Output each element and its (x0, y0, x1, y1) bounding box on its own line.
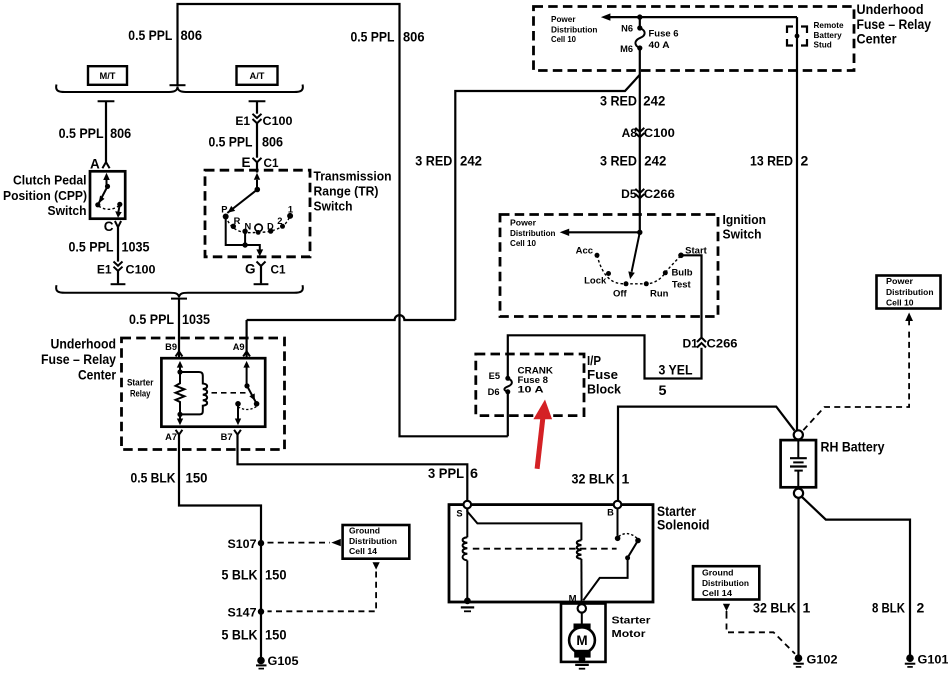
label 0.5 PPL 806 (left top) (128, 27, 202, 43)
svg-text:A/T: A/T (250, 71, 265, 81)
TR switch internals (221, 173, 293, 257)
relay resistor (176, 372, 185, 414)
svg-text:E1: E1 (235, 114, 250, 128)
wire 13 RED 2 battery feed (796, 17, 798, 430)
svg-text:Run: Run (650, 289, 669, 300)
wire 0.5 PPL 1035 down to B9 (178, 299, 180, 359)
svg-text:A: A (90, 156, 100, 171)
solenoid hold-in winding (466, 508, 468, 537)
svg-text:5: 5 (659, 382, 667, 398)
ignition switch rotary contacts (576, 245, 708, 299)
svg-text:150: 150 (265, 567, 287, 583)
svg-text:1035: 1035 (182, 311, 210, 327)
label Underhood Fuse-Relay Center (top right) (857, 2, 932, 47)
svg-text:B: B (607, 508, 614, 518)
svg-text:C1: C1 (271, 263, 286, 277)
label 0.5 PPL 806 (M/T branch) (59, 125, 132, 141)
svg-text:Cell 10: Cell 10 (886, 299, 914, 308)
reference Power Distribution Cell 10 (in UFRC) (551, 15, 598, 44)
label 13 RED 2 (750, 153, 809, 169)
splice S147 (228, 606, 265, 620)
label 0.5 PPL 806 (right top) (351, 29, 425, 45)
svg-text:Clutch Pedal: Clutch Pedal (13, 174, 87, 188)
relay coil (180, 372, 207, 414)
brace bottom (merge to 0.5 PPL 1035) (56, 285, 303, 298)
splice S107 (228, 537, 265, 551)
brace top (M/T + A/T split) (56, 85, 303, 93)
battery cell plates (790, 440, 807, 489)
svg-text:242: 242 (460, 153, 482, 169)
svg-text:P: P (221, 205, 227, 215)
dashed link ground distribution to S147 (268, 562, 380, 611)
ignition switch wiper arm (628, 232, 640, 279)
svg-text:0.5 PPL: 0.5 PPL (351, 29, 395, 45)
svg-text:3 YEL: 3 YEL (659, 362, 693, 378)
arrow to Power Distribution (ignition) (560, 229, 643, 236)
svg-text:Power: Power (886, 277, 914, 286)
svg-text:1: 1 (803, 600, 811, 616)
svg-text:6: 6 (470, 465, 478, 481)
starter motor ground (575, 656, 589, 669)
svg-text:1: 1 (288, 205, 293, 215)
svg-text:M: M (576, 633, 587, 648)
svg-text:Power: Power (551, 15, 576, 24)
relay coil input arrow (B9) (177, 361, 183, 375)
svg-text:Fuse 8: Fuse 8 (518, 375, 549, 385)
box M/T (88, 66, 127, 85)
starter relay box (161, 358, 265, 427)
wire 3 RED 242 main vertical (639, 48, 641, 232)
svg-text:Stud: Stud (814, 41, 832, 50)
svg-text:Switch: Switch (314, 199, 353, 213)
wire G to brace (254, 266, 269, 284)
svg-text:150: 150 (186, 470, 208, 486)
svg-text:S: S (456, 509, 462, 519)
svg-text:N6: N6 (621, 24, 633, 34)
solenoid coil 2 (577, 540, 582, 559)
svg-text:Cell 14: Cell 14 (702, 589, 732, 598)
svg-text:A9: A9 (233, 342, 245, 352)
I/P fuse block dashed box (476, 354, 584, 416)
wire 32 BLK 1 from solenoid B to battery (618, 407, 795, 501)
terminal A9 (233, 342, 250, 356)
svg-text:C100: C100 (644, 126, 675, 140)
solenoid linkage dashed (473, 548, 617, 550)
svg-text:CRANK: CRANK (518, 366, 554, 376)
svg-text:Transmission: Transmission (314, 169, 392, 183)
svg-text:Underhood: Underhood (857, 2, 924, 17)
svg-text:S107: S107 (228, 537, 257, 551)
connector D1 C266 (682, 337, 737, 351)
svg-text:Distribution: Distribution (886, 288, 934, 297)
svg-text:B9: B9 (165, 342, 177, 352)
svg-text:D6: D6 (488, 387, 500, 397)
label Starter Solenoid (657, 504, 710, 533)
svg-text:Battery: Battery (814, 31, 843, 40)
svg-text:Position (CPP): Position (CPP) (3, 189, 87, 203)
svg-text:B7: B7 (221, 432, 233, 442)
wire E into TR box (256, 163, 258, 173)
ground G102 (793, 653, 838, 667)
svg-text:Distribution: Distribution (551, 25, 598, 34)
wire Start contact to D1 (681, 255, 702, 337)
wire 3 YEL 5 to I/P fuse block (508, 335, 702, 378)
solenoid pull-in winding branch (467, 508, 581, 540)
svg-text:Switch: Switch (723, 228, 762, 242)
connector E1 C100 (A/T) (235, 114, 293, 128)
svg-text:Fuse – Relay: Fuse – Relay (857, 17, 932, 32)
wire A/T (256, 123, 258, 157)
connector G C1 (245, 262, 286, 277)
clutch pedal position switch CPP box (90, 171, 125, 218)
svg-text:Cell 10: Cell 10 (510, 239, 536, 248)
svg-text:Acc: Acc (576, 245, 593, 256)
svg-text:3 RED: 3 RED (600, 153, 637, 169)
svg-text:32 BLK: 32 BLK (753, 600, 796, 616)
svg-text:E1: E1 (97, 263, 112, 277)
svg-text:Distribution: Distribution (510, 229, 556, 238)
svg-text:Ground: Ground (702, 569, 734, 578)
svg-text:Ground: Ground (349, 527, 380, 536)
wire A9 drop (246, 320, 248, 358)
svg-text:M/T: M/T (99, 71, 115, 81)
wire feed with arrow to Power Distribution (601, 13, 797, 20)
svg-text:G105: G105 (268, 654, 299, 668)
label 0.5 PPL 1035 (to relay) (129, 311, 210, 327)
wire 3 RED 242 branch to relay A9 feed (455, 75, 640, 320)
svg-text:3 RED: 3 RED (600, 93, 637, 109)
svg-text:Solenoid: Solenoid (657, 518, 710, 533)
svg-text:242: 242 (644, 153, 666, 169)
fuse F8 (CRANK Fuse 8 10 A) (488, 366, 554, 398)
label 3 RED 242 (upper) (600, 93, 666, 109)
solenoid movable contact to M (583, 541, 638, 601)
svg-text:Ignition: Ignition (723, 213, 767, 227)
svg-text:N: N (244, 221, 251, 231)
svg-text:Cell 14: Cell 14 (349, 547, 377, 556)
svg-text:Starter: Starter (612, 615, 651, 627)
svg-text:3 RED: 3 RED (415, 153, 452, 169)
label Transmission Range (TR) Switch (314, 169, 392, 213)
svg-text:E5: E5 (489, 371, 500, 381)
ground G105 (256, 654, 299, 669)
svg-text:D: D (267, 221, 274, 231)
svg-text:D5: D5 (621, 187, 637, 201)
svg-text:D1: D1 (682, 337, 698, 351)
svg-text:Distribution: Distribution (349, 537, 397, 546)
terminal M (569, 594, 586, 613)
connector E C1 (241, 155, 278, 170)
reference Ground Distribution Cell 14 (G102) (693, 566, 759, 599)
svg-text:A8: A8 (622, 126, 638, 140)
label 0.5 BLK 150 (131, 470, 208, 486)
label 5 BLK 150 (lower) (222, 627, 287, 643)
svg-text:2: 2 (801, 153, 809, 169)
svg-text:40 A: 40 A (649, 40, 670, 50)
solenoid contact from B (615, 508, 641, 543)
svg-text:Bulb: Bulb (671, 268, 692, 279)
label 3 YEL 5 (659, 362, 693, 399)
solenoid coil 1 (463, 537, 468, 560)
svg-text:2: 2 (917, 600, 925, 616)
terminal B7 (221, 430, 241, 442)
label 0.5 PPL 806 (A/T branch) (209, 133, 284, 149)
svg-text:8 BLK: 8 BLK (872, 600, 905, 616)
svg-text:Lock: Lock (584, 276, 607, 287)
svg-text:0.5 BLK: 0.5 BLK (131, 470, 176, 486)
svg-text:Motor: Motor (612, 628, 646, 640)
label Ignition Switch (723, 213, 767, 242)
relay switch contact (A9 side) (243, 361, 259, 407)
svg-text:13 RED: 13 RED (750, 153, 793, 169)
RH battery box (781, 440, 816, 487)
wire fuse D6 down to PPL loop (507, 392, 509, 437)
label 8 BLK 2 (872, 600, 925, 616)
svg-text:C1: C1 (264, 156, 279, 170)
label 0.5 PPL 1035 (M/T branch) (69, 239, 150, 255)
svg-text:Block: Block (587, 383, 621, 397)
wire coil 2 to M (580, 559, 582, 604)
terminal B (607, 501, 621, 518)
svg-text:242: 242 (643, 93, 665, 109)
dashed link battery to Power Distribution (803, 313, 913, 431)
CPP switch internals (95, 173, 122, 218)
svg-text:32 BLK: 32 BLK (572, 471, 615, 487)
svg-text:150: 150 (265, 627, 287, 643)
svg-text:Cell 10: Cell 10 (551, 35, 576, 44)
svg-text:806: 806 (403, 29, 425, 45)
wire coil 1 to ground (466, 560, 468, 598)
svg-text:G102: G102 (807, 653, 838, 667)
terminal A7 (165, 430, 182, 442)
svg-text:C100: C100 (126, 263, 156, 277)
wire B7 to solenoid S (3 PPL 6) (238, 435, 468, 501)
dashed link ground distribution to G102 wire (723, 604, 795, 654)
svg-text:Test: Test (672, 280, 692, 291)
red arrow pointing at CRANK fuse (533, 400, 552, 469)
svg-text:3 PPL: 3 PPL (428, 465, 464, 481)
reference Power Distribution Cell 10 (battery) (877, 276, 941, 309)
svg-text:M6: M6 (620, 44, 633, 54)
label Clutch Pedal Position (CPP) Switch (3, 174, 87, 219)
terminal B9 (165, 342, 182, 356)
label I/P Fuse Block (587, 354, 621, 397)
svg-text:806: 806 (110, 125, 131, 141)
label 32 BLK 1 (lower) (753, 600, 811, 616)
connector A8 C100 (622, 126, 675, 140)
wire stub A/T branch (249, 101, 266, 113)
svg-text:Range (TR): Range (TR) (314, 184, 379, 198)
relay linkage dashed (212, 392, 247, 394)
svg-text:C100: C100 (263, 114, 293, 128)
solenoid internal ground (461, 598, 474, 612)
svg-text:0.5 PPL: 0.5 PPL (129, 311, 174, 327)
underhood fuse-relay center dashed box (top) (534, 7, 855, 71)
starter solenoid box (449, 505, 653, 602)
label Starter Relay (127, 378, 154, 399)
svg-text:R: R (234, 216, 241, 226)
terminal A (90, 156, 110, 171)
dashed arrow S107 to ground distribution (268, 539, 341, 546)
ignition switch dashed box (500, 215, 718, 317)
label 3 PPL 6 (428, 465, 478, 481)
battery RH negative terminal (794, 489, 803, 498)
svg-text:5 BLK: 5 BLK (222, 627, 258, 643)
svg-text:Switch: Switch (48, 204, 87, 218)
wire E1 to brace (111, 271, 126, 284)
svg-text:C: C (104, 219, 114, 234)
wire A9 horizontal with hop over PPL wire (247, 315, 456, 320)
label 3 RED 242 (branch) (415, 153, 482, 169)
label 32 BLK 1 (upper) (572, 471, 630, 487)
label Underhood Fuse-Relay Center (left) (41, 337, 117, 383)
svg-text:Center: Center (857, 32, 898, 47)
wire 0.5 PPL 806 feed loop (top) (178, 4, 508, 436)
svg-text:G: G (245, 262, 256, 277)
svg-text:Starter: Starter (127, 378, 154, 388)
svg-text:0.5 PPL: 0.5 PPL (128, 27, 172, 43)
label 3 RED 242 (lower) (600, 153, 667, 169)
fuse F6 (Fuse 6 40 A) (620, 17, 678, 54)
svg-text:E: E (241, 155, 250, 170)
svg-text:10 A: 10 A (518, 385, 544, 395)
svg-text:S147: S147 (228, 606, 257, 620)
label 5 BLK 150 (upper) (222, 567, 287, 583)
svg-text:0.5 PPL: 0.5 PPL (209, 133, 253, 149)
wire 0.5 BLK 150 from A7 to S107 (179, 435, 261, 658)
svg-text:0.5 PPL: 0.5 PPL (59, 125, 104, 141)
svg-text:C266: C266 (644, 187, 675, 201)
svg-text:1: 1 (622, 471, 630, 487)
terminal C (104, 219, 121, 234)
ground G101 (905, 653, 948, 667)
relay switch fixed contact to B7 (235, 401, 256, 425)
wire C to E1 (117, 227, 119, 261)
svg-text:I/P: I/P (587, 354, 601, 368)
reference Power Distribution Cell 10 (in ignition switch) (510, 219, 556, 249)
connector E1 C100 (M/T) (97, 262, 156, 277)
svg-text:5 BLK: 5 BLK (222, 567, 258, 583)
battery RH positive terminal (794, 430, 803, 439)
transmission range TR switch dashed box (205, 170, 310, 257)
svg-text:Distribution: Distribution (702, 579, 749, 588)
svg-text:G101: G101 (918, 653, 948, 667)
wire stub M/T branch (98, 101, 115, 162)
wire 8 BLK 2 battery to G101 (802, 497, 910, 655)
svg-text:Fuse: Fuse (587, 368, 618, 382)
svg-text:A7: A7 (165, 432, 177, 442)
label Starter Motor (612, 615, 651, 641)
relay coil output arrow (A7) (177, 412, 183, 425)
svg-text:RH Battery: RH Battery (821, 439, 885, 454)
svg-text:1035: 1035 (122, 239, 150, 255)
svg-text:0.5 PPL: 0.5 PPL (69, 239, 114, 255)
svg-text:Underhood: Underhood (51, 337, 117, 352)
box A/T (237, 66, 278, 85)
connector D5 C266 (621, 187, 675, 201)
underhood fuse-relay center dashed box (left) (122, 338, 285, 450)
svg-text:2: 2 (277, 216, 282, 226)
svg-text:Remote: Remote (814, 21, 844, 30)
svg-text:Center: Center (78, 368, 117, 383)
svg-text:806: 806 (181, 27, 203, 43)
remote battery stud (787, 21, 844, 50)
svg-text:Off: Off (613, 289, 628, 300)
svg-text:Relay: Relay (130, 389, 151, 399)
svg-text:Fuse 6: Fuse 6 (649, 29, 679, 39)
terminal S (456, 501, 471, 519)
reference Ground Distribution Cell 14 (S107) (343, 525, 410, 559)
svg-text:C266: C266 (707, 337, 738, 351)
svg-text:Power: Power (510, 219, 537, 228)
wire 32 BLK 1 battery to G102 (797, 498, 799, 655)
starter motor symbol (569, 613, 595, 658)
svg-text:806: 806 (262, 133, 283, 149)
svg-text:Fuse – Relay: Fuse – Relay (41, 352, 116, 367)
starter motor box (561, 604, 606, 662)
